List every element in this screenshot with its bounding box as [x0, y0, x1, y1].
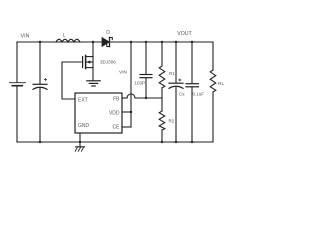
- node Cs top: [175, 41, 177, 43]
- svg-text:R1: R1: [169, 71, 175, 76]
- wire right vertical top (RL top lead): [212, 42, 214, 70]
- battery VIN source: [10, 83, 26, 86]
- svg-text:GND: GND: [78, 123, 90, 129]
- wire top rail left (VIN to diode anode): [17, 41, 103, 43]
- wire EXT pin to gate: [62, 62, 75, 99]
- svg-text:VDD: VDD: [109, 110, 120, 116]
- node feedback cap bottom: [145, 97, 147, 99]
- node 103P top: [145, 41, 147, 43]
- svg-text:VOUT: VOUT: [177, 31, 192, 37]
- resistor R2: [159, 111, 165, 130]
- wire Cs bottom lead: [175, 87, 177, 142]
- wire input cap top lead: [39, 42, 41, 84]
- wire R1-R2 link: [161, 88, 163, 111]
- capacitor 103P: [140, 75, 152, 78]
- svg-text:CE: CE: [113, 124, 121, 130]
- node input cap top: [39, 41, 41, 43]
- node Cs bottom: [175, 141, 177, 143]
- node C01 top: [191, 41, 193, 43]
- wire 103P top lead: [145, 42, 147, 74]
- svg-text:D: D: [106, 30, 110, 36]
- ground (MOSFET source): [87, 81, 100, 86]
- ground (chassis, bottom rail): [75, 142, 84, 151]
- svg-text:R2: R2: [169, 119, 175, 124]
- wire 0.1uF bottom lead: [191, 87, 193, 142]
- svg-text:FB: FB: [113, 96, 120, 102]
- node GND rail junction: [79, 141, 81, 143]
- wire 0.1uF top lead: [191, 42, 193, 84]
- node VDD junction: [130, 111, 132, 113]
- wire 103P bottom lead: [145, 78, 147, 98]
- svg-text:Cs: Cs: [179, 92, 185, 97]
- transistor Q1 MOSFET: [62, 55, 93, 68]
- resistor R1: [159, 66, 165, 88]
- svg-text:RL: RL: [218, 81, 224, 87]
- wire input cap bottom lead: [39, 88, 41, 142]
- capacitor Cs (output electrolytic): [169, 79, 183, 89]
- svg-text:L: L: [63, 33, 66, 39]
- wire R1 top lead: [161, 42, 163, 66]
- svg-text:VIN: VIN: [21, 34, 30, 40]
- svg-text:103P: 103P: [134, 80, 145, 85]
- diode D (Schottky): [102, 37, 112, 46]
- capacitor 0.1uF: [186, 84, 199, 87]
- capacitor Cin (input electrolytic): [33, 78, 47, 89]
- wire FB pin with crossover hump: [122, 94, 162, 98]
- node drain junction: [92, 41, 94, 43]
- wire VDD pin: [122, 111, 131, 113]
- node R2 bottom: [161, 141, 163, 143]
- wire battery to bottom rail: [16, 86, 18, 142]
- svg-text:EXT: EXT: [78, 97, 88, 103]
- inductor L: [56, 39, 80, 42]
- op-amp U1 (controller IC box): [75, 93, 122, 133]
- wire source to ground: [92, 68, 94, 81]
- node R1 top: [161, 41, 163, 43]
- wire VIN vertical line: [130, 42, 132, 127]
- wire RL bottom lead: [212, 92, 214, 142]
- wire CE pin: [122, 126, 131, 128]
- wire bottom rail: [17, 141, 213, 143]
- svg-text:3DJ306: 3DJ306: [100, 60, 116, 65]
- wire Cs top lead: [175, 42, 177, 83]
- wire top rail right (diode cathode to VOUT corner): [110, 41, 213, 43]
- node VIN line top: [130, 41, 132, 43]
- svg-text:VIN: VIN: [119, 69, 128, 75]
- wire GND pin to bottom rail: [79, 133, 81, 142]
- resistor RL: [210, 70, 216, 92]
- node input cap bottom: [39, 141, 41, 143]
- wire R2 bottom lead: [161, 130, 163, 142]
- svg-text:0.1uF: 0.1uF: [193, 92, 205, 97]
- wire drain drop: [92, 42, 94, 57]
- wire left vertical (battery branch): [16, 42, 18, 82]
- node C01 bottom: [191, 141, 193, 143]
